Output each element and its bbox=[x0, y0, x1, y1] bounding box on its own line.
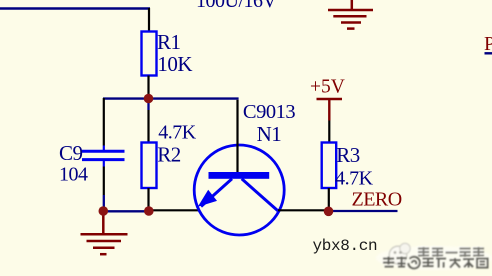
svg-text:+5V: +5V bbox=[310, 77, 345, 98]
svg-text:ybx8.cn: ybx8.cn bbox=[313, 237, 378, 255]
svg-text:P: P bbox=[484, 33, 492, 55]
svg-text:104: 104 bbox=[59, 164, 88, 186]
svg-text:R2: R2 bbox=[157, 143, 181, 167]
svg-text:ZERO: ZERO bbox=[352, 189, 402, 211]
svg-text:100U/16V: 100U/16V bbox=[196, 0, 278, 12]
svg-text:R1: R1 bbox=[157, 30, 181, 54]
svg-text:N1: N1 bbox=[257, 122, 282, 146]
svg-text:R3: R3 bbox=[336, 143, 360, 167]
svg-text:4.7K: 4.7K bbox=[158, 121, 197, 143]
svg-text:10K: 10K bbox=[157, 52, 192, 76]
svg-text:C9: C9 bbox=[59, 141, 83, 165]
svg-text:C9013: C9013 bbox=[243, 101, 295, 123]
svg-text:4.7K: 4.7K bbox=[335, 167, 374, 189]
